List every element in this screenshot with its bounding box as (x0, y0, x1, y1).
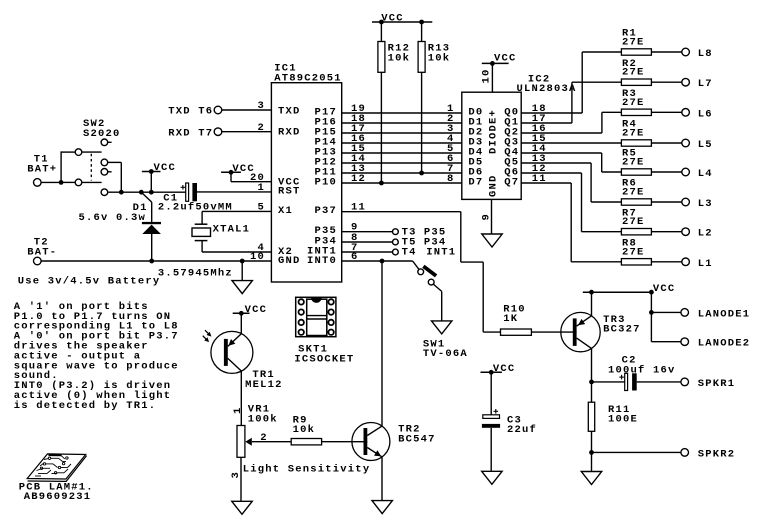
svg-text:10k: 10k (293, 424, 316, 436)
svg-text:10: 10 (481, 68, 493, 83)
svg-text:VCC: VCC (653, 283, 676, 295)
svg-text:TXD: TXD (278, 106, 301, 118)
svg-text:TXD T6: TXD T6 (168, 106, 213, 118)
svg-text:P10: P10 (314, 177, 337, 189)
svg-text:ULN2803A: ULN2803A (517, 83, 577, 95)
svg-text:27E: 27E (622, 37, 645, 49)
svg-text:100uf 16v: 100uf 16v (608, 364, 676, 376)
svg-text:SPKR1: SPKR1 (698, 378, 736, 390)
svg-text:ICSOCKET: ICSOCKET (294, 354, 354, 366)
svg-text:AT89C2051: AT89C2051 (274, 73, 342, 85)
svg-text:VCC: VCC (494, 52, 517, 64)
svg-text:TV-06A: TV-06A (423, 348, 468, 360)
svg-text:VCC: VCC (154, 162, 177, 174)
svg-text:3: 3 (230, 471, 242, 479)
svg-text:BAT-: BAT- (27, 247, 57, 259)
svg-text:T4: T4 (402, 247, 417, 259)
svg-text:DIODE+: DIODE+ (488, 109, 500, 154)
svg-text:RXD: RXD (278, 127, 301, 139)
svg-text:L1: L1 (698, 258, 713, 270)
svg-text:27E: 27E (622, 187, 645, 199)
svg-text:1: 1 (257, 182, 265, 194)
svg-text:L4: L4 (698, 168, 713, 180)
svg-text:27E: 27E (622, 128, 645, 140)
svg-text:L7: L7 (698, 78, 713, 90)
svg-text:2: 2 (260, 432, 268, 444)
svg-text:5.6v 0.3w: 5.6v 0.3w (79, 212, 147, 224)
svg-text:INT1: INT1 (426, 247, 456, 259)
svg-text:10k: 10k (428, 53, 451, 65)
svg-text:2: 2 (257, 122, 265, 134)
svg-text:3: 3 (257, 100, 265, 112)
svg-text:8: 8 (447, 173, 455, 185)
svg-text:27E: 27E (622, 97, 645, 109)
svg-text:LANODE1: LANODE1 (698, 308, 751, 320)
svg-text:MEL12: MEL12 (245, 379, 283, 391)
svg-text:22uf: 22uf (507, 424, 537, 436)
svg-text:27E: 27E (622, 157, 645, 169)
svg-text:L2: L2 (698, 228, 713, 240)
svg-text:BC327: BC327 (603, 324, 641, 336)
svg-text:100k: 100k (248, 414, 278, 426)
svg-text:1: 1 (232, 406, 244, 414)
svg-text:27E: 27E (622, 246, 645, 258)
svg-text:5: 5 (257, 202, 265, 214)
svg-text:10: 10 (250, 251, 265, 263)
svg-text:S2020: S2020 (83, 128, 121, 140)
svg-text:BC547: BC547 (398, 433, 436, 445)
svg-text:RXD T7: RXD T7 (168, 128, 213, 140)
svg-text:L8: L8 (698, 48, 713, 60)
svg-text:10k: 10k (388, 53, 411, 65)
svg-text:VCC: VCC (493, 363, 516, 375)
svg-text:3.57945Mhz: 3.57945Mhz (158, 268, 233, 280)
svg-text:AB9609231: AB9609231 (24, 491, 92, 503)
svg-text:BAT+: BAT+ (27, 164, 57, 176)
svg-text:L5: L5 (698, 139, 713, 151)
svg-text:VCC: VCC (245, 304, 268, 316)
svg-text:INT0: INT0 (307, 255, 337, 267)
svg-text:27E: 27E (622, 67, 645, 79)
svg-text:Use 3v/4.5v Battery: Use 3v/4.5v Battery (18, 275, 161, 287)
svg-text:D7: D7 (468, 177, 483, 189)
svg-text:LANODE2: LANODE2 (698, 338, 751, 350)
svg-text:XTAL1: XTAL1 (213, 224, 251, 236)
svg-text:L3: L3 (698, 198, 713, 210)
svg-text:Light Sensitivity: Light Sensitivity (243, 464, 371, 476)
svg-text:is detected by TR1.: is detected by TR1. (14, 400, 157, 412)
svg-text:GND: GND (278, 255, 301, 267)
svg-text:1K: 1K (503, 313, 518, 325)
svg-text:GND: GND (488, 174, 500, 197)
svg-text:27E: 27E (622, 216, 645, 228)
svg-text:VCC: VCC (381, 13, 404, 25)
svg-text:100E: 100E (608, 414, 638, 426)
svg-text:L6: L6 (698, 108, 713, 120)
svg-text:X1: X1 (278, 205, 293, 217)
svg-text:Q7: Q7 (504, 177, 519, 189)
svg-text:SPKR2: SPKR2 (698, 448, 736, 460)
svg-text:P37: P37 (314, 205, 337, 217)
svg-text:RST: RST (278, 186, 301, 198)
svg-text:9: 9 (481, 213, 493, 221)
